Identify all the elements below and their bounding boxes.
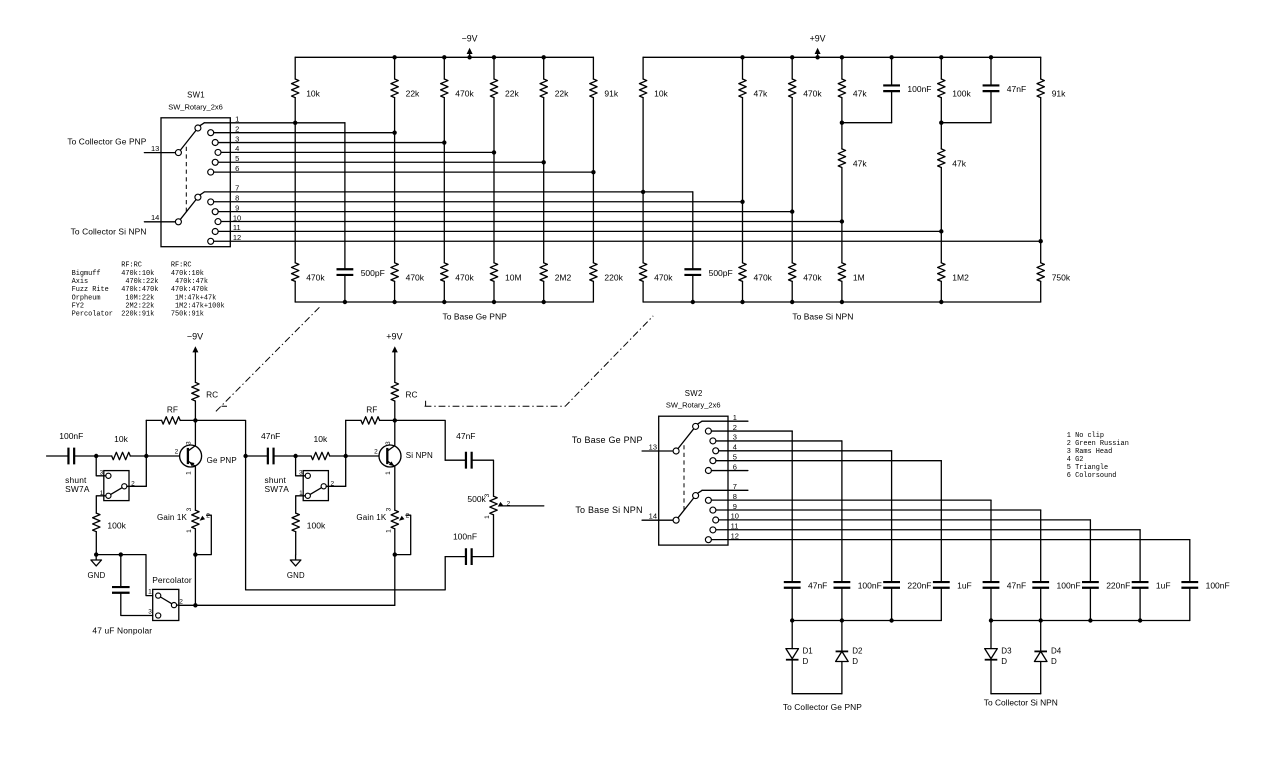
pin 13 wire + pole (SW2) [642,450,673,452]
wire shunt pin1 to 100k (stage 2) [296,496,304,513]
svg-text:1: 1 [148,589,152,596]
svg-text:D3: D3 [1001,647,1012,656]
junction SW1 pin 11 wire [939,229,943,233]
svg-text:22k: 22k [406,89,420,99]
svg-text:220nF: 220nF [1106,581,1130,591]
capacitor 47uF nonpolar [120,555,122,587]
svg-text:470k: 470k [455,272,474,282]
svg-text:100nF: 100nF [1206,581,1230,591]
capacitor 47nF (clipping bank 5) [983,582,1000,588]
svg-text:D: D [803,657,809,666]
svg-text:5 Triangle: 5 Triangle [1067,464,1108,472]
svg-text:2M2: 2M2 [555,272,572,282]
transistor Si NPN [379,445,401,467]
wire SW1 pin 2 [214,132,395,134]
svg-text:10k: 10k [306,89,320,99]
wire diode return Si [991,693,1041,695]
contact-1 link deck2 (SW1) [200,192,204,195]
svg-text:3: 3 [386,507,393,511]
svg-text:RF: RF [167,405,178,415]
resistor 470k (Si network col1 bottom) [639,263,646,282]
svg-text:1: 1 [385,471,392,475]
wire interstage coupling [246,455,268,457]
svg-text:2: 2 [235,124,239,133]
diode D1 [791,621,793,649]
dash-dot divider 2 [425,316,654,406]
junction Ge clipping bus / col 11 [840,618,844,622]
svg-text:500pF: 500pF [709,268,733,278]
wire RF-left / shunt pin2 vertical (stage 2) [345,420,347,486]
capacitor 100nF (clipping bank 2) [834,582,851,588]
contact-1 link deck1 (SW2) [698,421,702,424]
wire SW2 pin 11 [716,529,1140,531]
wire column [543,98,545,263]
resistor RC (stage 1) [194,353,196,383]
contact-1 link deck1 (SW1) [200,123,204,126]
switch arm deck1 (SW1) [180,130,196,150]
wire SW2 pin 8 [712,499,992,501]
svg-text:RC: RC [406,390,418,400]
contact circles deck2 (SW1) [195,194,201,200]
svg-text:47k: 47k [853,89,867,99]
svg-text:Percolator 220k:91k 750k:9: Percolator 220k:91k 750k:91k [72,311,204,319]
wire SW1 pin 3 [218,142,444,144]
wire SW1 pin 6 [214,171,594,173]
capacitor 100nF (clipping bank 9) [1181,582,1198,588]
switch SW2 body (SW_Rotary_2x6) [659,416,728,545]
svg-text:Axis 470k:22k 470k:: Axis 470k:22k 470k:47k [72,278,208,286]
svg-text:1M2: 1M2 [952,272,969,282]
wire stage1 output to blend low side [246,456,446,590]
junction dot stage1 output [243,454,247,458]
resistor 2M2 (Ge network bottom row col 6) [540,263,547,282]
svg-text:To Collector Ge PNP: To Collector Ge PNP [783,702,862,712]
svg-text:47nF: 47nF [261,431,280,441]
svg-text:11: 11 [731,522,739,531]
wire column [493,98,495,263]
svg-text:100nF: 100nF [907,84,931,94]
svg-text:6: 6 [235,164,239,173]
svg-text:2: 2 [406,512,410,519]
resistor 22k (Ge network top row col 3) [394,57,396,79]
svg-text:47nF: 47nF [1007,581,1026,591]
dash-dot divider 1 [215,307,319,412]
svg-text:470k: 470k [803,89,822,99]
svg-text:−9V: −9V [187,331,203,341]
svg-text:91k: 91k [604,89,618,99]
svg-text:7: 7 [733,482,737,491]
wire SW2 pin 3 drop to capacitor [841,441,843,582]
wire SW1 pin 1 [204,122,345,124]
capacitor 1uF (clipping bank 8) [1132,582,1149,588]
svg-text:7: 7 [235,184,239,193]
resistor 470k (Ge network top row col 4) [443,57,445,79]
contact-1 link deck2 (SW2) [698,490,702,493]
junction Ge base bus / col 4 [492,300,496,304]
resistor 10k (stage 2) [311,452,330,459]
svg-text:+9V: +9V [386,331,402,341]
potentiometer Gain 1K (stage 1) [192,510,199,529]
wire 100k junction to 47nF [941,122,991,124]
svg-text:4: 4 [235,144,239,153]
junction SW1 pin 1 wire [293,121,297,125]
wire shunt pin3 (stage 1) [96,456,104,476]
svg-text:2: 2 [733,423,737,432]
resistor 100k (stage 2) [292,513,299,532]
svg-text:1: 1 [484,515,491,519]
wire SW2 pin 10 drop to capacitor [1089,520,1091,582]
resistor 47k (Si col5 mid) [841,123,843,149]
svg-text:47 uF Nonpolar: 47 uF Nonpolar [92,625,152,635]
svg-text:RC: RC [206,390,218,400]
svg-text:47k: 47k [853,159,867,169]
resistor RF (stage 1) [146,419,161,421]
svg-text:Si NPN: Si NPN [406,451,433,460]
wire SW2 pin 2 [712,430,793,432]
resistor 47k (Si col3 top) [742,57,744,79]
junction Ge base bus / col 3 [442,300,446,304]
coupling dashes (SW2) [683,445,685,511]
resistor 220k (Ge network bottom row col 7) [590,263,597,282]
capacitor 1uF (clipping bank 4) [933,582,950,588]
potentiometer 500k blend [490,496,497,515]
wire column [294,98,296,263]
wire SW2 pin 12 drop to capacitor [1189,540,1191,582]
pin 14 wire + pole (SW2) [642,519,673,521]
wire 47k junction to 100nF [842,122,892,124]
junction dot GND rail stage 1 [94,552,98,556]
wire SW2 pin 7 [702,489,748,491]
switch Percolator [153,589,179,620]
wire column [394,98,396,263]
wire SW1 pin 11 [218,230,941,232]
wire emitter to output rail (stage 2) [394,529,396,555]
svg-text:12: 12 [233,233,241,242]
capacitor 220nF (clipping bank 7) [1082,582,1099,588]
svg-text:13: 13 [649,442,657,451]
wire stage2 collector to blend high side [395,420,446,460]
svg-text:To Base Si NPN: To Base Si NPN [792,311,853,321]
resistor 22k (Ge network top row col 5) [493,57,495,79]
resistor 22k (Ge network top row col 6) [543,57,545,79]
wire base (stage 2) [330,455,388,457]
svg-text:3: 3 [385,441,392,445]
svg-text:Gain 1K: Gain 1K [157,513,187,522]
capacitor 47nF (Si network top) [990,57,992,85]
junction +9V bus / col 10 [790,55,794,59]
junction SW1 pin 8 wire [740,200,744,204]
wire SW2 pin 5 drop to capacitor [940,461,942,582]
junction Si base bus / col 9 [740,300,744,304]
svg-text:1: 1 [733,413,737,422]
wire shunt pin1 to 100k (stage 1) [96,496,104,513]
wire SW1 pin 8 [214,201,743,203]
svg-text:FY2 2M2:22k 1M2:4: FY2 2M2:22k 1M2:47k+100k [72,302,225,310]
svg-text:To Collector Ge PNP: To Collector Ge PNP [67,136,146,146]
svg-text:470k: 470k [654,272,673,282]
svg-text:3: 3 [185,441,192,445]
svg-text:11: 11 [233,223,241,232]
junction SW1 pin 6 wire [591,170,595,174]
svg-text:1uF: 1uF [957,581,972,591]
resistor 47k (Si col5 top) [841,57,843,79]
wire clipping bus Si [991,620,1190,622]
svg-text:D4: D4 [1051,647,1062,656]
wire shunt pin3 (stage 2) [296,456,304,476]
wire shunt pin2 (stage 1) [129,485,146,487]
capacitor 100nF (clipping bank 6) [1032,582,1049,588]
svg-text:2: 2 [175,449,179,456]
svg-text:14: 14 [649,512,657,521]
svg-text:100k: 100k [107,520,126,530]
svg-text:3: 3 [733,433,737,442]
svg-text:100nF: 100nF [453,531,477,541]
svg-text:470k: 470k [455,89,474,99]
junction +9V bus / col 11 [840,55,844,59]
junction Si clipping bus / col 16 [1088,618,1092,622]
resistor 750k (Si col9 bottom) [1037,263,1044,282]
wire SW2 pin 4 [719,450,892,452]
junction +9V bus / col 14 [989,55,993,59]
svg-text:1uF: 1uF [1156,581,1171,591]
svg-text:Bigmuff 470k:10k 470k:1: Bigmuff 470k:10k 470k:10k [72,270,204,278]
wire SW2 pin 9 drop to capacitor [1040,510,1042,582]
diode D3 [990,621,992,649]
svg-text:3: 3 [484,493,491,497]
wire Percolator pin2 / emitter rail [179,604,395,606]
junction SW1 pin 12 wire [1039,239,1043,243]
capacitor 500pF (Ge network) [344,123,346,269]
wire SW2 pin 3 [716,440,842,442]
svg-text:47nF: 47nF [456,431,475,441]
svg-text:Fuzz Rite 470k:470k 470k:4: Fuzz Rite 470k:470k 470k:470k [72,286,208,294]
ground symbol (stage 2) [290,555,301,566]
junction SW1 pin 5 wire [542,160,546,164]
resistor 91k (Si col9 top) [1040,57,1042,79]
switch SW1 body (SW_Rotary_2x6) [161,118,230,247]
resistor 47k (Si col7 mid) [940,123,942,149]
switch arm deck1 (SW2) [678,429,694,449]
switch arm deck2 (SW1) [180,200,196,220]
svg-text:100k: 100k [307,520,326,530]
capacitor 500pF (Si network) [692,192,694,269]
svg-text:To Collector Si NPN: To Collector Si NPN [984,697,1058,707]
wire diode return Ge [792,693,842,695]
svg-text:10k: 10k [654,89,668,99]
svg-text:100nF: 100nF [59,431,83,441]
svg-text:8: 8 [235,194,239,203]
svg-text:D: D [1051,657,1057,666]
capacitor 220nF (clipping bank 3) [883,582,900,588]
potentiometer Gain 1K (stage 2) [391,510,398,529]
svg-text:500pF: 500pF [361,268,385,278]
resistor 470k (Si col3 bottom) [739,263,746,282]
svg-text:14: 14 [151,213,159,222]
wire emitter to output rail (stage 1) [194,529,196,555]
svg-text:10k: 10k [114,434,128,444]
svg-text:SW7A: SW7A [265,484,290,494]
svg-text:1M: 1M [853,272,865,282]
svg-text:Orpheum 10M:22k 1M:47: Orpheum 10M:22k 1M:47k+47k [72,294,217,302]
svg-text:Ge PNP: Ge PNP [207,456,237,465]
svg-text:8: 8 [733,492,737,501]
wire bottom bus / node To Base Ge PNP [295,301,593,303]
resistor 10M (Ge network bottom row col 5) [490,263,497,282]
resistor RF (stage 2) [346,419,361,421]
svg-text:6: 6 [733,462,737,471]
junction Ge base bus / col 5 [542,300,546,304]
wire top bus (Si network) [643,56,1041,58]
svg-text:470k: 470k [803,272,822,282]
svg-text:2: 2 [206,512,210,519]
diode D4 [1040,621,1042,652]
switch shunt SW7A (stage 1) [104,471,129,501]
wire SW1 pin 12 [214,240,1041,242]
svg-text:10k: 10k [314,434,328,444]
capacitor 47nF (input stage 2) [268,448,274,465]
capacitor 47nF (clipping bank 1) [784,582,801,588]
svg-text:470k: 470k [306,272,325,282]
svg-text:GND: GND [88,571,106,580]
resistor 470k (Ge network bottom row col 4) [441,263,448,282]
svg-text:750k: 750k [1052,272,1071,282]
svg-text:D: D [852,657,858,666]
svg-text:4 G2: 4 G2 [1067,456,1084,464]
svg-text:SW_Rotary_2x6: SW_Rotary_2x6 [168,102,223,111]
svg-text:12: 12 [731,531,739,540]
junction Si base bus / col 11 [840,300,844,304]
svg-text:RF: RF [366,405,377,415]
svg-text:SW1: SW1 [187,91,205,100]
svg-text:3: 3 [148,608,152,615]
wire shunt pin2 (stage 2) [328,485,345,487]
junction -9V bus / col 4 [492,55,496,59]
junction +9V bus / col 13 [939,55,943,59]
svg-text:1: 1 [185,471,192,475]
svg-text:D1: D1 [803,647,814,656]
svg-text:1: 1 [186,529,193,533]
junction Si clipping bus / col 14 [989,618,993,622]
wire SW1 pin 5 [218,161,543,163]
svg-text:To Base Ge PNP: To Base Ge PNP [572,435,643,445]
junction SW1 pin 2 wire [392,130,396,134]
pin 14 wire + pole (SW1) [144,221,175,223]
svg-text:470k: 470k [754,272,773,282]
wire SW2 pin 9 [716,509,1041,511]
junction Ge base bus / col 2 [392,300,396,304]
resistor 100k (stage 1) [93,513,100,532]
svg-text:4: 4 [733,443,737,452]
svg-text:6 Colorsound: 6 Colorsound [1067,472,1117,480]
wire SW2 pin 1 [702,420,748,422]
resistor 91k (Ge network top row col 7) [592,57,594,79]
coupling dashes (SW1) [185,147,187,213]
contact circles deck2 (SW2) [693,493,699,499]
svg-text:10: 10 [731,512,739,521]
svg-text:1: 1 [386,529,393,533]
wire bottom bus / node To Base Si NPN [643,301,1041,303]
wire SW2 pin 5 [716,460,941,462]
svg-text:47nF: 47nF [1007,84,1026,94]
junction SW1 pin 3 wire [442,140,446,144]
svg-text:47k: 47k [952,159,966,169]
svg-text:3: 3 [235,134,239,143]
junction Si base bus / col 13 [939,300,943,304]
svg-text:−9V: −9V [462,33,478,43]
svg-text:1 No clip: 1 No clip [1067,432,1104,440]
switch arm deck2 (SW2) [678,498,694,518]
junction -9V bus / col 3 [442,55,446,59]
svg-text:100k: 100k [952,89,971,99]
svg-text:D2: D2 [852,647,863,656]
svg-text:GND: GND [287,571,305,580]
resistor 10k (stage 1) [112,452,131,459]
svg-text:47k: 47k [754,89,768,99]
wire stage1 collector to coupling node [195,420,245,456]
diode D2 [841,621,843,652]
svg-text:220k: 220k [604,272,623,282]
svg-text:47nF: 47nF [808,581,827,591]
svg-text:100nF: 100nF [858,581,882,591]
svg-text:To Base Ge PNP: To Base Ge PNP [443,311,508,321]
resistor 10k (Ge network top row col 1) [294,57,296,79]
junction Ge base bus / col 1 [343,300,347,304]
wire RF-left / shunt pin2 vertical (stage 1) [145,420,147,486]
resistor 1M2 (Si col7 bottom) [938,263,945,282]
wire 500k wiper stub [499,505,544,507]
wire column [443,98,445,263]
junction +9V bus / col 12 [889,55,893,59]
svg-text:470k: 470k [406,272,425,282]
svg-text:2: 2 [179,599,183,606]
wire SW2 pin 6 [712,470,748,472]
resistor 470k (Si col4 bottom) [789,263,796,282]
svg-text:2 Green Russian: 2 Green Russian [1067,440,1129,448]
wire audio input [47,455,69,457]
svg-text:22k: 22k [505,89,519,99]
junction SW1 pin 4 wire [492,150,496,154]
svg-text:9: 9 [235,203,239,212]
wire GND rail to Percolator pin1 [96,555,153,596]
junction -9V bus / col 2 [392,55,396,59]
wire SW2 pin 12 [712,539,1190,541]
resistor 470k (Ge network bottom row col 3) [391,263,398,282]
junction SW1 pin 10 wire [840,219,844,223]
svg-text:To Collector Si NPN: To Collector Si NPN [71,227,147,237]
svg-text:3: 3 [186,507,193,511]
switch shunt SW7A (stage 2) [303,471,328,501]
svg-text:1: 1 [235,115,239,124]
svg-text:5: 5 [235,154,239,163]
wire SW1 pin 10 [221,221,842,223]
resistor 1M (Si col5 bottom) [838,263,845,282]
svg-text:2: 2 [374,449,378,456]
pin 13 wire + pole (SW1) [144,152,175,154]
svg-text:13: 13 [151,144,159,153]
junction Si base bus / col 8 [691,300,695,304]
svg-text:22k: 22k [555,89,569,99]
wire SW1 pin 9 [218,211,792,213]
wire SW2 pin 11 drop to capacitor [1139,530,1141,582]
wire column [592,98,594,263]
capacitor 100nF (blend low) [445,556,466,558]
wire SW1 pin 4 [221,151,494,153]
wire SW2 pin 2 drop to capacitor [791,431,793,582]
svg-text:SW_Rotary_2x6: SW_Rotary_2x6 [666,401,721,410]
junction Ge clipping bus / col 12 [889,618,893,622]
svg-text:SW7A: SW7A [65,484,90,494]
junction Ge clipping bus / col 10 [790,618,794,622]
